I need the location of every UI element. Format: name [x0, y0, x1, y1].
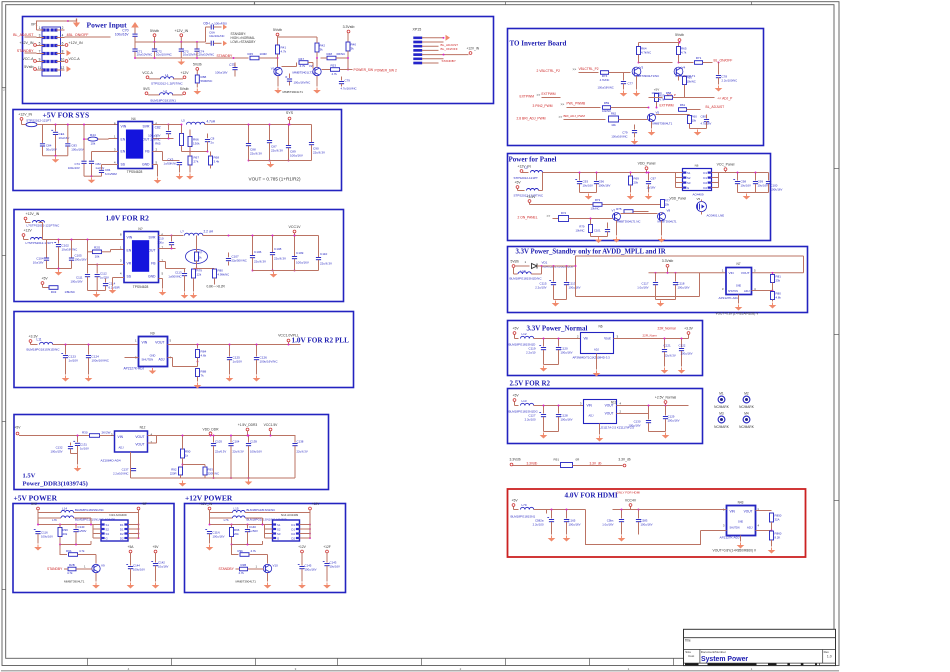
svg-text:VCC-A: VCC-A: [69, 57, 81, 61]
svg-text:R74: R74: [561, 211, 567, 215]
svg-text:AP2127K-ADJ: AP2127K-ADJ: [124, 367, 145, 371]
svg-text:6: 6: [62, 41, 64, 45]
svg-text:MMBT3904LT1: MMBT3904LT1: [64, 580, 85, 584]
svg-text:AO3401 LNE: AO3401 LNE: [707, 214, 725, 218]
svg-text:BLM18PG181SN1D/NC: BLM18PG181SN1D/NC: [510, 277, 543, 281]
svg-text:100u/16V: 100u/16V: [678, 286, 690, 290]
svg-text:V10: V10: [273, 564, 279, 568]
svg-text:BLM18PG181SN1/NC: BLM18PG181SN1/NC: [247, 508, 276, 512]
svg-text:+12F: +12F: [323, 545, 331, 549]
svg-text:8: 8: [62, 49, 64, 53]
svg-text:TPS54628: TPS54628: [133, 285, 149, 289]
svg-text:+5A: +5A: [128, 545, 135, 549]
svg-text:23k: 23k: [776, 279, 781, 283]
svg-text:+12V: +12V: [298, 545, 307, 549]
svg-text:D2: D2: [120, 537, 124, 541]
svg-text:C122: C122: [679, 344, 686, 348]
svg-text:100u/15V: 100u/15V: [51, 450, 63, 454]
svg-text:V8: V8: [667, 209, 671, 213]
svg-text:ADJ: ADJ: [119, 446, 125, 450]
svg-text:R61: R61: [680, 103, 686, 107]
svg-text:VDD_Panel: VDD_Panel: [670, 197, 687, 201]
svg-text:4BL_ON/OFF: 4BL_ON/OFF: [67, 33, 90, 37]
svg-text:3.4k: 3.4k: [214, 160, 220, 164]
svg-text:C77: C77: [628, 82, 634, 86]
svg-text:2.2u/100: 2.2u/100: [525, 418, 536, 422]
svg-text:GND: GND: [142, 163, 150, 167]
svg-text:2.5V FOR R2: 2.5V FOR R2: [510, 380, 551, 388]
svg-text:10k/NC: 10k/NC: [687, 80, 696, 84]
svg-text:R43: R43: [51, 290, 57, 294]
svg-text:10u/10V/NC: 10u/10V/NC: [156, 53, 172, 57]
svg-text:1u/50V/NC: 1u/50V/NC: [168, 275, 181, 279]
svg-text:NC/MARK: NC/MARK: [739, 425, 755, 429]
svg-text:Rev: Rev: [824, 650, 830, 654]
svg-text:VIN: VIN: [729, 271, 734, 275]
svg-text:<< ADJ_P: << ADJ_P: [718, 97, 734, 101]
svg-text:4.7uH: 4.7uH: [207, 120, 216, 124]
svg-text:SS: SS: [127, 275, 132, 279]
svg-text:10u/16V/NC: 10u/16V/NC: [62, 248, 78, 252]
svg-text:VBLCTRL_P2: VBLCTRL_P2: [579, 67, 599, 71]
svg-text:STPS2012-121PT: STPS2012-121PT: [26, 118, 51, 122]
svg-text:V5: V5: [697, 197, 701, 201]
svg-text:2k: 2k: [199, 256, 203, 260]
svg-text:SHUTDN: SHUTDN: [730, 527, 740, 530]
svg-text:+12V_IN: +12V_IN: [467, 46, 480, 50]
svg-text:S3: S3: [687, 181, 691, 185]
svg-text:GND: GND: [150, 354, 156, 358]
svg-text:R2B: R2B: [241, 563, 247, 567]
svg-text:10k/NC: 10k/NC: [591, 207, 600, 211]
svg-text:22p/50V/NC: 22p/50V/NC: [232, 259, 247, 263]
svg-text:VDD_Panel: VDD_Panel: [638, 162, 656, 166]
svg-text:MMBT3904LT1: MMBT3904LT1: [653, 122, 673, 126]
svg-text:5: 5: [39, 41, 41, 45]
svg-text:R45: R45: [248, 52, 254, 56]
svg-text:130k: 130k: [193, 142, 200, 146]
svg-text:R74: R74: [602, 74, 608, 78]
svg-text:100u/16V: 100u/16V: [569, 286, 581, 290]
svg-text:D1: D1: [120, 523, 124, 527]
svg-text:3.3V_db: 3.3V_db: [590, 462, 602, 466]
svg-text:G: G: [277, 537, 279, 541]
svg-text:2: 2: [62, 26, 64, 30]
svg-text:R2S: R2S: [94, 246, 100, 250]
svg-text:10u/10V/NC: 10u/10V/NC: [137, 53, 153, 57]
svg-text:2.8 BRI_ADJ_PWM: 2.8 BRI_ADJ_PWM: [517, 117, 546, 121]
svg-text:27k: 27k: [194, 160, 199, 164]
svg-text:11: 11: [38, 66, 42, 70]
svg-text:C109: C109: [296, 251, 304, 255]
svg-text:STANDBY: STANDBY: [442, 59, 456, 63]
svg-text:C106: C106: [254, 250, 262, 254]
svg-text:+12V: +12V: [180, 71, 189, 75]
svg-text:MMBT3904LT1/NC: MMBT3904LT1/NC: [635, 74, 660, 78]
svg-text:100k/NC: 100k/NC: [652, 91, 663, 95]
svg-text:4.7u/16V: 4.7u/16V: [701, 122, 712, 126]
svg-text:+12V_IN: +12V_IN: [69, 41, 83, 45]
svg-text:3.3V Power_Normal: 3.3V Power_Normal: [527, 325, 588, 333]
svg-text:S3: S3: [277, 532, 281, 536]
svg-text:4.7u/16V/NC: 4.7u/16V/NC: [341, 87, 357, 91]
svg-text:+12V: +12V: [24, 229, 33, 233]
svg-text:100u/16V/NC: 100u/16V/NC: [260, 360, 279, 364]
svg-text:10k: 10k: [611, 123, 616, 127]
svg-text:+12V_IN: +12V_IN: [26, 212, 40, 216]
svg-text:4.7k: 4.7k: [659, 98, 665, 102]
svg-text:VR: VR: [127, 262, 132, 266]
svg-text:100u/16V: 100u/16V: [213, 535, 225, 539]
svg-text:10u/16L/NC: 10u/16L/NC: [209, 34, 224, 38]
svg-text:100u/16V: 100u/16V: [71, 148, 83, 152]
svg-text:SVR: SVR: [149, 236, 157, 240]
svg-text:10k/NC: 10k/NC: [602, 109, 611, 113]
svg-text:3k: 3k: [320, 48, 324, 52]
svg-text:+12V_IN: +12V_IN: [199, 502, 213, 506]
svg-text:Cust: Cust: [688, 654, 694, 658]
svg-text:Vout: Vout: [604, 337, 610, 341]
svg-text:AZ1084D-AD4: AZ1084D-AD4: [101, 459, 121, 463]
svg-text:220R: 220R: [170, 472, 177, 476]
svg-text:S1: S1: [687, 171, 691, 175]
svg-text:XP15: XP15: [413, 28, 422, 32]
svg-text:VIN: VIN: [127, 236, 133, 240]
svg-text:10k: 10k: [95, 255, 100, 259]
svg-text:R75: R75: [616, 207, 622, 211]
svg-text:1u/16V: 1u/16V: [80, 447, 89, 451]
svg-text:BLM18PG181SN1/NC: BLM18PG181SN1/NC: [75, 508, 104, 512]
svg-text:L5: L5: [525, 166, 529, 170]
svg-text:22u/6.3V: 22u/6.3V: [233, 450, 244, 454]
svg-text:C110: C110: [320, 252, 327, 256]
svg-text:M2: M2: [744, 392, 749, 396]
svg-text:SS: SS: [121, 163, 126, 167]
svg-text:10u/16V: 10u/16V: [583, 184, 594, 188]
svg-text:100u/16V/NC: 100u/16V/NC: [611, 135, 627, 139]
svg-text:D1: D1: [703, 171, 707, 175]
svg-text:D2: D2: [703, 186, 707, 190]
svg-text:S2: S2: [277, 528, 281, 532]
svg-text:D1: D1: [291, 523, 295, 527]
svg-text:N43: N43: [738, 501, 744, 505]
svg-text:C6H: C6H: [203, 22, 210, 26]
svg-text:ONLY FOR HDMI: ONLY FOR HDMI: [617, 491, 641, 495]
svg-text:ADJ: ADJ: [158, 358, 164, 362]
svg-text:VCC4V: VCC4V: [625, 499, 637, 503]
svg-text:V4: V4: [682, 66, 686, 70]
svg-text:BLM18PG181SN1: BLM18PG181SN1: [511, 515, 536, 519]
svg-text:3.3Vstb: 3.3Vstb: [662, 259, 674, 263]
svg-text:100u/16V: 100u/16V: [305, 568, 317, 572]
svg-text:C137: C137: [122, 468, 129, 472]
svg-text:7k: 7k: [201, 374, 205, 378]
svg-text:1u/50V: 1u/50V: [78, 529, 87, 533]
svg-text:+2.5V_Normal: +2.5V_Normal: [655, 396, 676, 400]
svg-text:10k/NC: 10k/NC: [576, 229, 585, 233]
svg-text:L15: L15: [234, 507, 239, 511]
svg-text:100u/16V: 100u/16V: [68, 166, 80, 170]
svg-text:6.2v/50R: 6.2v/50R: [109, 286, 120, 290]
svg-text:3.3V Power_Standby only for AV: 3.3V Power_Standby only for AVDD_MPLL an…: [516, 249, 666, 256]
svg-text:L7b: L7b: [52, 518, 57, 522]
svg-text:VIN: VIN: [730, 510, 736, 514]
svg-text:N12: N12: [140, 426, 146, 430]
svg-text:10u/16V: 10u/16V: [158, 565, 169, 569]
svg-text:D2: D2: [120, 532, 124, 536]
svg-text:R71: R71: [696, 56, 702, 60]
svg-text:STANDBY: STANDBY: [17, 49, 34, 53]
svg-text:2K/2W: 2K/2W: [102, 431, 111, 435]
svg-text:VOUT: VOUT: [605, 412, 614, 416]
svg-text:100u/16V: 100u/16V: [668, 419, 680, 423]
svg-text:System Power: System Power: [701, 656, 748, 663]
svg-text:8.2K: 8.2K: [775, 536, 781, 540]
svg-text:1u/10V: 1u/10V: [233, 360, 243, 364]
svg-text:4.99k/NC: 4.99k/NC: [218, 273, 230, 277]
svg-text:M1: M1: [719, 392, 724, 396]
svg-text:100u/16V: 100u/16V: [115, 33, 130, 37]
svg-text:3: 3: [39, 33, 41, 37]
svg-text:+12V_IN: +12V_IN: [19, 41, 33, 45]
svg-text:100k/16V: 100k/16V: [599, 184, 611, 188]
svg-text:D1: D1: [703, 176, 707, 180]
svg-text:4.0V FOR HDMI: 4.0V FOR HDMI: [565, 492, 618, 500]
svg-text:V7: V7: [612, 209, 616, 213]
svg-text:20k: 20k: [63, 532, 68, 536]
svg-text:N6: N6: [599, 325, 603, 329]
svg-text:C79: C79: [345, 79, 351, 83]
svg-text:1.0V FOR R2 PLL: 1.0V FOR R2 PLL: [292, 337, 350, 345]
svg-text:4.6k: 4.6k: [776, 296, 782, 300]
svg-text:100u/16V: 100u/16V: [75, 258, 87, 262]
svg-text:SHUTDN: SHUTDN: [142, 358, 154, 362]
svg-text:22R_Normal: 22R_Normal: [658, 327, 676, 331]
svg-text:MMBT3904LT1: MMBT3904LT1: [283, 90, 304, 94]
svg-text:3.3Vstb: 3.3Vstb: [510, 458, 521, 462]
svg-text:STPS2012-1.2(P)T/NC: STPS2012-1.2(P)T/NC: [151, 82, 183, 86]
svg-text:Power for Panel: Power for Panel: [509, 156, 557, 164]
svg-text:10u/10V/NC: 10u/10V/NC: [183, 53, 199, 57]
svg-text:STANDBY: STANDBY: [47, 567, 63, 571]
svg-text:4: 4: [62, 33, 64, 37]
svg-text:4.7k: 4.7k: [67, 571, 73, 575]
svg-text:20k: 20k: [634, 181, 639, 185]
svg-text:2.2 uH: 2.2 uH: [204, 230, 214, 234]
svg-text:5Vstb: 5Vstb: [193, 62, 202, 66]
svg-text:OUT: OUT: [148, 249, 155, 253]
svg-text:1/8k/NC: 1/8k/NC: [65, 290, 75, 294]
svg-text:STANDBY: STANDBY: [219, 567, 235, 571]
svg-text:+12V: +12V: [312, 502, 321, 506]
svg-text:+3.3V: +3.3V: [684, 327, 694, 331]
svg-text:1.5V: 1.5V: [23, 473, 36, 480]
svg-text:100R: 100R: [260, 52, 268, 56]
svg-text:4.7k: 4.7k: [79, 549, 85, 553]
svg-text:5Vstb: 5Vstb: [150, 29, 159, 33]
svg-text:MMBT3904LT1 NC: MMBT3904LT1 NC: [617, 220, 641, 224]
svg-text:20k: 20k: [234, 532, 239, 536]
svg-text:R2B: R2B: [69, 563, 75, 567]
svg-text:SYS: SYS: [286, 111, 294, 115]
svg-text:L11: L11: [37, 338, 42, 342]
svg-text:S3: S3: [106, 532, 110, 536]
svg-text:L2: L2: [164, 89, 168, 93]
svg-text:2.2u/10: 2.2u/10: [526, 351, 536, 355]
svg-text:STANDBY: STANDBY: [217, 54, 234, 58]
svg-text:N?: N?: [138, 227, 142, 231]
svg-text:BL_ON/OFF: BL_ON/OFF: [441, 47, 458, 51]
svg-text:22u/6.3V: 22u/6.3V: [313, 151, 325, 155]
svg-text:L14: L14: [62, 507, 67, 511]
svg-text:C138: C138: [297, 440, 304, 444]
svg-text:VCC-A: VCC-A: [22, 57, 34, 61]
svg-text:10k: 10k: [692, 119, 697, 123]
svg-text:22u/6.3V: 22u/6.3V: [274, 257, 286, 261]
svg-text:2.2u/100: 2.2u/100: [533, 523, 544, 527]
svg-text:C75: C75: [229, 63, 235, 67]
svg-text:C80: C80: [701, 115, 707, 119]
svg-text:M4: M4: [744, 412, 749, 416]
svg-text:Power_DDR3(1039745): Power_DDR3(1039745): [23, 481, 88, 488]
svg-text:10u/16V: 10u/16V: [741, 184, 752, 188]
svg-text:N6: N6: [695, 164, 699, 168]
svg-text:+5V: +5V: [513, 327, 520, 331]
svg-text:+12V_IN: +12V_IN: [174, 29, 188, 33]
svg-text:VCC1.0VPLL: VCC1.0VPLL: [278, 334, 299, 338]
svg-text:100u/16V: 100u/16V: [250, 450, 262, 454]
svg-text:+5V: +5V: [515, 181, 522, 185]
svg-text:4.7k: 4.7k: [281, 50, 287, 54]
svg-text:AO4409: AO4409: [693, 193, 704, 197]
svg-text:GND: GND: [148, 275, 156, 279]
svg-text:+5V: +5V: [153, 545, 160, 549]
svg-text:1u/25V: 1u/25V: [100, 276, 109, 280]
svg-text:R59: R59: [604, 101, 610, 105]
svg-text:100u/16V: 100u/16V: [133, 568, 145, 572]
svg-text:TPS54628: TPS54628: [127, 170, 143, 174]
svg-text:1: 1: [39, 26, 41, 30]
svg-text:S2: S2: [687, 176, 691, 180]
svg-text:3k: 3k: [351, 47, 355, 51]
svg-text:100u/16V: 100u/16V: [215, 71, 227, 75]
svg-text:Power Input: Power Input: [87, 21, 128, 30]
svg-text:EXTPWM: EXTPWM: [542, 92, 556, 96]
svg-text:4.7k: 4.7k: [300, 64, 306, 68]
svg-text:VCC-A: VCC-A: [142, 71, 153, 75]
svg-text:10k: 10k: [90, 141, 95, 145]
svg-text:VOUT: VOUT: [135, 443, 144, 447]
svg-text:>>: >>: [547, 214, 551, 218]
svg-text:7: 7: [39, 49, 41, 53]
svg-text:L7b: L7b: [224, 518, 229, 522]
svg-text:100u/16V: 100u/16V: [561, 418, 573, 422]
svg-text:10k: 10k: [665, 203, 670, 207]
svg-text:C104: C104: [233, 440, 240, 444]
svg-text:AP3N84D/T1C(KZ1084D-3.3: AP3N84D/T1C(KZ1084D-3.3: [573, 356, 611, 360]
svg-text:D2: D2: [291, 537, 295, 541]
svg-text:EN: EN: [121, 138, 126, 142]
svg-text:R44: R44: [90, 133, 96, 137]
svg-text:ADJ: ADJ: [744, 289, 750, 293]
svg-text:EN: EN: [127, 249, 132, 253]
svg-text:4.7k: 4.7k: [332, 72, 338, 76]
svg-text:9: 9: [39, 57, 41, 61]
svg-text:30u/16V: 30u/16V: [46, 148, 57, 152]
svg-text:VOUT = 0.785 (1+R1/R2): VOUT = 0.785 (1+R1/R2): [249, 177, 301, 182]
svg-text:2.2u/10V: 2.2u/10V: [535, 286, 546, 290]
svg-text:VOUT: VOUT: [741, 271, 750, 275]
svg-text:NC/MARK: NC/MARK: [714, 425, 730, 429]
svg-text:C121: C121: [664, 344, 672, 348]
svg-text:100u/16V: 100u/16V: [561, 351, 573, 355]
svg-text:POWER_SW 2: POWER_SW 2: [375, 69, 398, 73]
svg-text:100u/16V: 100u/16V: [296, 261, 309, 265]
svg-text:+1.5V_DDR3: +1.5V_DDR3: [238, 423, 258, 427]
svg-text:MMBT3904LT1: MMBT3904LT1: [658, 220, 678, 224]
svg-text:C108: C108: [274, 247, 282, 251]
svg-text:4.7k/NC: 4.7k/NC: [600, 78, 610, 82]
svg-text:L13: L13: [522, 399, 527, 403]
svg-text:3.3Vstb: 3.3Vstb: [343, 25, 355, 29]
svg-text:0R/NC: 0R/NC: [337, 52, 346, 56]
svg-text:C97: C97: [651, 177, 657, 181]
svg-text:FB: FB: [151, 262, 156, 266]
svg-text:+12V_IN: +12V_IN: [18, 113, 32, 117]
svg-text:R48: R48: [327, 52, 333, 56]
svg-text:>>: >>: [561, 103, 565, 107]
svg-text:5Vstb: 5Vstb: [273, 28, 282, 32]
svg-text:100u/16V: 100u/16V: [290, 154, 303, 158]
svg-text:1.0V FOR R2: 1.0V FOR R2: [106, 214, 150, 223]
svg-text:V9: V9: [101, 564, 105, 568]
svg-text:LOW->STANDBY: LOW->STANDBY: [231, 40, 257, 44]
svg-text:VOUT: VOUT: [135, 435, 144, 439]
svg-text:BLM18PG181SN1D/NC: BLM18PG181SN1D/NC: [27, 348, 61, 352]
svg-text:SHUTDN: SHUTDN: [728, 290, 738, 293]
svg-text:2u: 2u: [211, 141, 215, 145]
svg-text:R?: R?: [199, 251, 203, 255]
svg-text:ADJ: ADJ: [594, 348, 600, 352]
svg-text:STPS2012-121PT: STPS2012-121PT: [514, 176, 539, 180]
svg-text:ADJ: ADJ: [747, 526, 753, 530]
svg-text:GND: GND: [738, 521, 744, 524]
svg-text:D1: D1: [291, 528, 295, 532]
svg-text:VOUT: VOUT: [605, 404, 614, 408]
svg-text:1.0u/16V: 1.0u/16V: [602, 523, 613, 527]
svg-text:+5V: +5V: [15, 426, 22, 430]
svg-text:VIN: VIN: [121, 125, 127, 129]
svg-text:22u/6.3V: 22u/6.3V: [297, 450, 308, 454]
svg-text:V2: V2: [309, 64, 313, 68]
svg-text:BL_ADJUST: BL_ADJUST: [706, 105, 725, 109]
svg-text:VCC1V: VCC1V: [289, 225, 302, 229]
svg-text:N4: N4: [131, 117, 135, 121]
svg-text:6.0n/50M: 6.0n/50M: [105, 172, 117, 176]
svg-text:12k: 12k: [197, 273, 202, 277]
svg-text:L12: L12: [522, 332, 527, 336]
svg-text:R65: R65: [155, 142, 161, 146]
svg-text:4.6k: 4.6k: [201, 354, 207, 358]
svg-text:10u/16V: 10u/16V: [330, 565, 341, 569]
svg-text:D2: D2: [291, 532, 295, 536]
svg-text:4.7k/NC: 4.7k/NC: [641, 51, 651, 55]
svg-text:C103: C103: [215, 440, 222, 444]
svg-text:OUT: OUT: [142, 138, 149, 142]
svg-text:V3: V3: [640, 66, 644, 70]
svg-text:ADJ: ADJ: [589, 414, 595, 418]
svg-text:R62: R62: [611, 112, 617, 116]
